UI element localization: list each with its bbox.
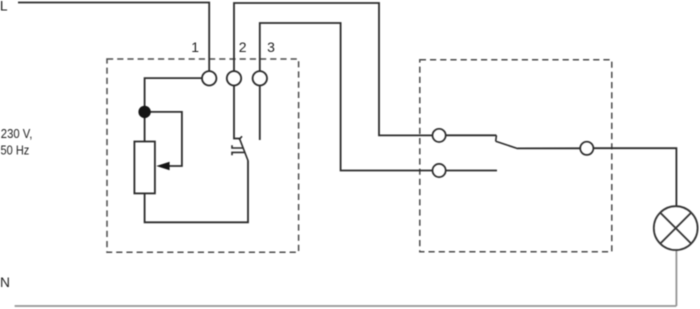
wire node A to potentiometer top <box>144 118 146 142</box>
wire lamp to N rail <box>675 250 677 306</box>
wire L rail to terminal 1 <box>18 3 209 72</box>
wire terminal 1 to node A <box>145 78 202 106</box>
wire terminal 2 drop to push-button contact <box>234 86 240 139</box>
push-button S1 actuator <box>232 145 245 155</box>
node A junction dot <box>138 106 150 118</box>
wire switch-box upper terminal to fixed contact <box>446 134 497 136</box>
wire wiper tap from node A <box>150 112 182 166</box>
svg-text:3: 3 <box>267 39 275 55</box>
svg-text:50 Hz: 50 Hz <box>1 142 30 157</box>
switch S2 upper terminal <box>433 129 446 142</box>
terminal 1 <box>202 71 216 85</box>
potentiometer R1 body <box>134 142 155 194</box>
svg-text:N: N <box>0 275 10 290</box>
potentiometer wiper arrowhead <box>156 162 169 170</box>
switch S2 fixed contact tick <box>495 135 498 141</box>
wire terminal 2 riser to switch-box upper terminal <box>234 3 433 135</box>
svg-text:L: L <box>0 0 8 13</box>
switch enclosure (right dashed box) <box>420 60 612 252</box>
svg-text:1: 1 <box>191 39 199 55</box>
switch S2 lower terminal <box>433 164 446 177</box>
wire N rail <box>15 305 677 307</box>
push-button S1 lever <box>239 138 248 161</box>
wire terminal 3 stub <box>259 86 261 141</box>
dimmer enclosure (left dashed box) <box>107 59 299 252</box>
switch S2 common terminal <box>580 142 593 155</box>
label 230 V, 50 Hz <box>1 126 33 157</box>
wire switch common to lamp <box>518 147 581 149</box>
wire potentiometer bottom to push-button <box>145 161 248 223</box>
svg-text:230 V,: 230 V, <box>1 126 33 141</box>
push-button S1 contact tick <box>239 136 242 140</box>
switch S2 lever <box>496 141 518 148</box>
terminal 2 <box>227 71 241 85</box>
terminal 3 <box>253 71 267 85</box>
wire switch-box lower terminal open end <box>446 170 497 172</box>
lamp E1 <box>654 206 698 250</box>
wire terminal 3 riser to switch-box lower terminal <box>260 23 433 171</box>
svg-text:2: 2 <box>239 39 247 55</box>
